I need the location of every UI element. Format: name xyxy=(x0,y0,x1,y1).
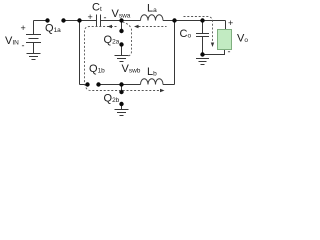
wire Q2a lower xyxy=(121,45,123,56)
svg-text:+: + xyxy=(88,12,93,22)
node Q2a bottom terminal xyxy=(119,42,123,46)
wire load bottom return xyxy=(203,50,225,55)
wire dashed right loop over rail and down xyxy=(184,17,213,43)
svg-text:-: - xyxy=(228,47,231,57)
wire Q2a upper xyxy=(121,21,123,32)
wire Co branch upper xyxy=(202,21,204,34)
wire Co branch lower xyxy=(202,37,204,55)
capacitor Co plates xyxy=(196,34,209,37)
node Q2b bottom terminal xyxy=(119,102,123,106)
wire Q2b lower xyxy=(121,104,123,110)
ground under Q2a xyxy=(115,56,129,62)
arrowhead right on loop A bottom xyxy=(160,89,165,92)
arrowhead down on right loop xyxy=(211,43,214,48)
wire dashed curve at Vswa down beside Q2a xyxy=(123,22,132,57)
wire battery stub xyxy=(33,21,35,35)
node Q1a right terminal xyxy=(61,18,65,22)
node output junction xyxy=(172,18,176,22)
wire dashed loop A top and left and bottom xyxy=(85,27,161,91)
wire bottom rail Lb to riser xyxy=(163,84,175,86)
node Q1a left terminal xyxy=(45,18,49,22)
ground under Co xyxy=(196,59,209,65)
node Q1b right terminal xyxy=(96,82,100,86)
svg-text:+: + xyxy=(21,23,26,33)
wire top rail La to load corner xyxy=(163,20,226,22)
inductor La xyxy=(141,15,164,21)
node Q2b top terminal xyxy=(119,90,123,94)
node Vswb xyxy=(119,82,123,86)
svg-text:-: - xyxy=(22,41,25,51)
node Co top junction xyxy=(200,18,204,22)
svg-text:+: + xyxy=(228,18,233,28)
source VIN plates xyxy=(26,35,41,54)
ground under Q2b xyxy=(115,110,129,116)
wire dashed under inductor La xyxy=(139,26,167,28)
node junction node1 xyxy=(77,18,81,22)
node Q1b left terminal xyxy=(85,82,89,86)
wire load top riser xyxy=(225,21,227,30)
node Vswa xyxy=(119,18,123,22)
inductor Lb xyxy=(141,79,164,85)
wire top rail left xyxy=(34,20,47,22)
load resistor box xyxy=(218,30,232,50)
capacitor Ct plates xyxy=(97,15,101,27)
wire bottom rail Q1b to Lb xyxy=(99,84,141,86)
wire bottom rail left xyxy=(80,84,88,86)
wire vertical node1 down xyxy=(79,21,81,85)
wire top rail Q1a to Ct xyxy=(64,20,97,22)
wire Q2b upper xyxy=(121,85,123,93)
arrowhead left under inductor La xyxy=(134,25,139,28)
node Co bottom junction xyxy=(200,52,204,56)
wire top rail Ct to La xyxy=(101,20,141,22)
wire riser to top rail xyxy=(174,21,176,85)
ground under VIN xyxy=(27,54,41,60)
svg-text:-: - xyxy=(104,13,107,23)
node Q2a top terminal xyxy=(119,29,123,33)
arrowhead left on loop A top xyxy=(108,25,113,28)
